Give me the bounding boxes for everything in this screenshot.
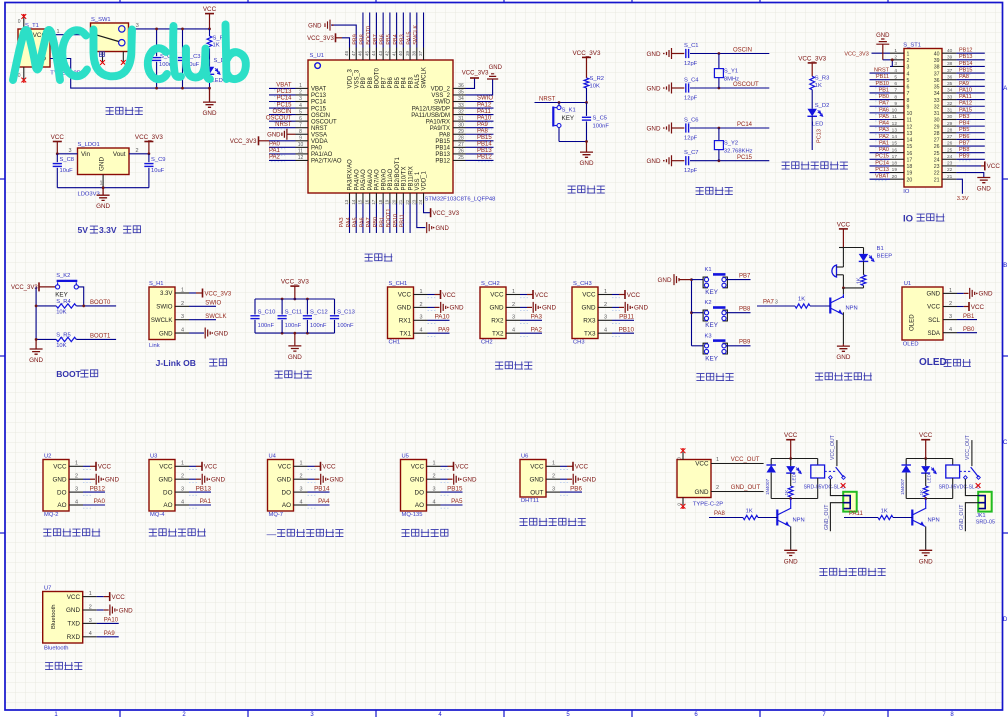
svg-text:3: 3 — [69, 148, 72, 154]
wire net BOOT1 from U1 bottom — [386, 204, 396, 234]
svg-text:NRST: NRST — [874, 67, 890, 73]
wire net PA9 from ST1 pin 35 — [956, 81, 984, 88]
wire NRST node — [535, 97, 588, 104]
wire GND_OUT to JK pin2 — [824, 503, 844, 532]
ground GND (S_C7) — [647, 155, 685, 166]
svg-text:VCC: VCC — [398, 292, 412, 299]
svg-text:31: 31 — [947, 108, 953, 114]
svg-text:BOOT0: BOOT0 — [366, 26, 372, 45]
svg-text:GND: GND — [159, 330, 173, 337]
zone letters right margin — [1003, 86, 1008, 623]
svg-text:PB5: PB5 — [386, 34, 392, 45]
title 5V转3.3V电路 — [78, 225, 141, 235]
svg-text:SRD-05VDC-SL-C: SRD-05VDC-SL-C — [804, 484, 846, 490]
svg-text:PB14: PB14 — [477, 142, 492, 148]
svg-text:10: 10 — [892, 108, 898, 114]
svg-text:100nF: 100nF — [337, 323, 354, 329]
svg-text:DO: DO — [282, 489, 292, 496]
power port VCC_3V3 (LDO out) — [135, 134, 163, 154]
svg-text:BOOT1: BOOT1 — [90, 333, 111, 339]
svg-text:32.768KHz: 32.768KHz — [724, 149, 753, 155]
wire net PA15 to U1 top — [406, 13, 416, 48]
svg-text:PA12: PA12 — [477, 102, 492, 108]
svg-text:NRST: NRST — [275, 122, 292, 128]
svg-text:PB0: PB0 — [879, 94, 889, 100]
svg-text:PA15: PA15 — [959, 107, 972, 113]
svg-text:PB0: PB0 — [373, 217, 379, 228]
svg-text:35: 35 — [458, 90, 464, 96]
svg-text:PA9: PA9 — [959, 81, 969, 87]
zone numbers bottom margin — [54, 712, 954, 717]
svg-text:PC13: PC13 — [276, 89, 292, 95]
svg-text:GND: GND — [29, 357, 43, 364]
wire net PA4 to ST1 pin 12 — [870, 121, 891, 128]
svg-text:10uF: 10uF — [60, 168, 74, 174]
S_CH2 — [480, 281, 506, 346]
svg-text:2: 2 — [552, 474, 555, 480]
MCU S_U1 STM32F103C8T6 — [308, 53, 495, 203]
capacitor S_C4 12pF — [684, 78, 699, 102]
svg-text:5: 5 — [299, 109, 302, 115]
wire PC15 (crystal) — [690, 155, 769, 162]
svg-text:GND: GND — [634, 305, 648, 312]
svg-text:SWCLK: SWCLK — [151, 317, 173, 324]
title BOOT电路 — [56, 369, 98, 379]
svg-text:GND_OUT: GND_OUT — [731, 485, 761, 491]
svg-text:7: 7 — [894, 88, 897, 94]
title IO拓展口 — [903, 214, 944, 225]
wire T1 pin2 to ground rail — [50, 53, 210, 88]
LED S_D2 — [807, 90, 829, 150]
svg-text:2: 2 — [433, 474, 436, 480]
svg-text:VCC: VCC — [490, 292, 504, 299]
svg-text:SRD-05: SRD-05 — [976, 520, 995, 526]
svg-text:PB6: PB6 — [379, 34, 385, 45]
svg-text:PB3: PB3 — [959, 114, 969, 120]
svg-text:PC15: PC15 — [875, 154, 889, 160]
resistor S_R3 1K — [810, 76, 830, 90]
svg-text:PB8: PB8 — [959, 147, 969, 153]
svg-text:13: 13 — [907, 131, 913, 137]
wire OSCOUT — [690, 82, 769, 89]
svg-text:VSS_1: VSS_1 — [415, 171, 421, 190]
svg-text:VCC: VCC — [535, 292, 549, 299]
svg-text:PB4: PB4 — [959, 121, 969, 127]
svg-text:PA1: PA1 — [200, 498, 212, 505]
svg-text:VCC: VCC — [784, 432, 798, 439]
svg-text:VCC: VCC — [98, 464, 112, 471]
svg-text:19: 19 — [907, 171, 913, 177]
wire relay top rail — [906, 457, 953, 460]
svg-text:PA3: PA3 — [339, 217, 345, 227]
svg-text:PA10: PA10 — [477, 115, 492, 121]
svg-text:PA9: PA9 — [438, 326, 450, 333]
svg-text:37: 37 — [418, 50, 423, 56]
svg-text:10: 10 — [298, 142, 304, 148]
svg-text:3: 3 — [181, 487, 184, 493]
svg-text:PA10: PA10 — [435, 314, 450, 321]
title 蓝牙模块 — [45, 662, 82, 670]
svg-text:PC13: PC13 — [875, 167, 889, 173]
svg-text:39: 39 — [947, 55, 953, 61]
svg-text:3: 3 — [420, 315, 423, 321]
svg-text:VCC_OUT: VCC_OUT — [830, 434, 836, 460]
svg-text:GND: GND — [211, 477, 225, 484]
svg-text:CH3: CH3 — [573, 340, 585, 346]
LED (relay) — [921, 459, 936, 484]
svg-text:GND: GND — [542, 305, 556, 312]
wire pin 1 of S_CH1 — [414, 289, 441, 298]
wire net PC14 to ST1 pin 18 — [870, 160, 891, 167]
svg-text:VCC_3V3: VCC_3V3 — [307, 36, 334, 42]
svg-text:U6: U6 — [521, 453, 528, 459]
svg-text:VCC: VCC — [837, 221, 851, 228]
svg-text:40: 40 — [398, 50, 403, 56]
svg-text:24: 24 — [934, 157, 940, 163]
svg-text:AO: AO — [282, 502, 291, 509]
svg-text:VCC: VCC — [575, 464, 589, 471]
svg-text:28: 28 — [458, 136, 464, 142]
wire net PA5 to ST1 pin 11 — [870, 114, 891, 121]
svg-text:TX3: TX3 — [584, 330, 596, 337]
svg-text:PB9: PB9 — [361, 76, 367, 88]
svg-text:PB7: PB7 — [739, 273, 751, 279]
svg-text:23: 23 — [412, 199, 417, 205]
switch S_SW1 — [91, 17, 129, 65]
svg-text:1: 1 — [552, 461, 555, 467]
svg-text:VCC_3V3: VCC_3V3 — [798, 55, 826, 62]
svg-text:2: 2 — [420, 302, 423, 308]
power port VCC (alarm) — [837, 221, 851, 247]
wire T1 pin1 to SW1 — [50, 29, 91, 35]
title 甲烷检测模块 — [149, 529, 206, 537]
power port GND at S_CH2 pin 2 — [533, 302, 556, 313]
title 串口电路 — [495, 362, 532, 370]
power port GND at U4 pin 2 — [321, 474, 344, 485]
wire switch to JK pin1 — [965, 479, 978, 496]
resistor 1K (relay) — [784, 473, 793, 498]
svg-text:VCC: VCC — [112, 594, 126, 601]
svg-text:36: 36 — [458, 83, 464, 89]
svg-text:STM32F103C8T6_LQFP48: STM32F103C8T6_LQFP48 — [425, 197, 496, 203]
capacitor S_C3 10uF — [178, 28, 201, 90]
capacitor S_C6 12pF — [684, 118, 699, 142]
connector TYPE-C-2P (relay power) — [677, 448, 724, 509]
svg-text:S_R4: S_R4 — [56, 299, 71, 305]
capacitor S_C10 100nF — [250, 299, 275, 333]
svg-text:VBAT: VBAT — [311, 87, 327, 93]
wire net PA4 from U1 bottom — [346, 204, 356, 234]
wire net PA8 from U1 — [466, 128, 494, 135]
ground GND (relay PA11) — [919, 549, 933, 565]
svg-text:VBAT: VBAT — [276, 83, 292, 89]
wire net PA2 to ST1 pin 14 — [870, 134, 891, 141]
svg-text:15: 15 — [892, 141, 898, 147]
svg-text:2: 2 — [75, 474, 78, 480]
wire pin 4 of S_CH1 — [414, 326, 450, 336]
svg-text:VSSA: VSSA — [311, 132, 327, 138]
svg-text:—: — — [267, 529, 277, 540]
svg-text:PB7: PB7 — [373, 34, 379, 45]
svg-text:2: 2 — [89, 604, 92, 610]
svg-text:10K: 10K — [590, 84, 600, 90]
power port VCC (LDO input) — [51, 134, 65, 154]
svg-text:NPN: NPN — [793, 518, 805, 524]
svg-text:PB1: PB1 — [879, 87, 889, 93]
crystal S_Y1 8MHz — [714, 54, 739, 89]
svg-text:VCC: VCC — [530, 464, 544, 471]
wire net PB10 to ST1 pin 6 — [870, 81, 891, 88]
svg-text:PB1/AO: PB1/AO — [388, 168, 394, 190]
svg-text:25: 25 — [934, 151, 940, 157]
svg-text:S_C11: S_C11 — [285, 310, 302, 316]
svg-text:3.3V: 3.3V — [99, 225, 117, 235]
svg-text:GND: GND — [658, 277, 672, 284]
svg-text:GND: GND — [647, 85, 661, 92]
wire net BOOT0 to U1 top — [366, 13, 376, 48]
svg-text:SCL: SCL — [928, 317, 940, 324]
ground GND at ST1 pin22 — [956, 173, 991, 193]
svg-text:21: 21 — [934, 177, 940, 183]
capacitor S_C9 10uF — [144, 154, 165, 188]
svg-text:11: 11 — [892, 114, 897, 120]
svg-text:37: 37 — [934, 71, 940, 77]
net label PC13 (indicator wire) — [817, 129, 823, 143]
ground GND (keys) — [658, 274, 692, 285]
svg-text:TX2: TX2 — [492, 330, 504, 337]
svg-text:VCC: VCC — [67, 594, 81, 601]
svg-text:4: 4 — [89, 631, 92, 637]
ground GND (relay PA8) — [784, 549, 798, 565]
svg-text:4: 4 — [75, 499, 78, 505]
wire net VBAT to ST1 pin 20 — [870, 174, 891, 181]
svg-text:PC14: PC14 — [875, 160, 889, 166]
wire net PA10 at U7 pin3 — [83, 618, 119, 624]
svg-text:13: 13 — [344, 199, 349, 205]
power port GND at U2 pin 2 — [96, 474, 119, 485]
svg-text:PB9: PB9 — [959, 154, 969, 160]
svg-text:SWIO: SWIO — [477, 96, 493, 102]
svg-text:4: 4 — [512, 328, 515, 334]
svg-text:30: 30 — [458, 122, 464, 128]
wire GND_OUT — [711, 485, 764, 491]
capacitor S_C7 12pF — [684, 150, 699, 174]
svg-text:3: 3 — [136, 23, 139, 29]
power port VCC_3V3 at U1 VDD_2 — [462, 71, 489, 89]
svg-text:PA3/RX/AO: PA3/RX/AO — [348, 159, 354, 191]
svg-text:26: 26 — [458, 149, 464, 155]
svg-text:31: 31 — [458, 116, 464, 122]
wire alarm bottom node — [842, 287, 864, 290]
svg-text:24: 24 — [947, 154, 953, 160]
wire pin 3 of U6 — [546, 485, 582, 495]
svg-text:GND: GND — [66, 607, 80, 614]
svg-text:PA8: PA8 — [439, 132, 451, 138]
svg-text:12pF: 12pF — [684, 96, 698, 102]
svg-text:VCC: VCC — [919, 432, 933, 439]
wire H1 pin3 SWCLK — [175, 314, 227, 320]
connector JK1 SRD-05 — [843, 492, 857, 512]
svg-text:17: 17 — [892, 154, 898, 160]
wire net PA3 to ST1 pin 13 — [870, 127, 891, 134]
svg-text:1: 1 — [299, 83, 302, 89]
svg-text:PB13: PB13 — [477, 148, 492, 154]
svg-text:4: 4 — [907, 71, 910, 77]
wire VCC_OUT — [711, 457, 764, 463]
wire net PA6 from U1 bottom — [359, 204, 369, 234]
svg-text:GND: GND — [436, 226, 450, 232]
connector S_T1 TYPE-C-2P — [18, 14, 81, 83]
wire pin 1 of U2 — [69, 461, 96, 470]
svg-text:VCC_3V3: VCC_3V3 — [230, 139, 257, 145]
svg-text:JK1: JK1 — [976, 513, 985, 519]
wire net PB0 from U1 bottom — [373, 204, 383, 234]
wire net PB5 to U1 top — [386, 13, 396, 48]
svg-text:GND: GND — [530, 476, 544, 483]
svg-text:S_K1: S_K1 — [562, 108, 576, 114]
svg-text:PA2: PA2 — [879, 134, 889, 140]
svg-text:VBAT: VBAT — [875, 174, 890, 180]
svg-text:VCC_3V3: VCC_3V3 — [281, 279, 309, 286]
svg-text:48: 48 — [344, 50, 349, 56]
svg-text:31: 31 — [934, 111, 940, 117]
title 按键电路 — [696, 373, 733, 381]
svg-text:GND: GND — [99, 157, 106, 171]
resistor 1K (relay) — [919, 473, 928, 498]
svg-text:PA0: PA0 — [94, 498, 106, 505]
svg-text:PB15: PB15 — [959, 67, 972, 73]
svg-text:VCC: VCC — [442, 292, 456, 299]
svg-text:VCC_3V3: VCC_3V3 — [11, 285, 38, 291]
wire net PA11 from ST1 pin 33 — [956, 94, 984, 101]
wire net PB14 from ST1 pin 38 — [956, 61, 984, 68]
svg-text:PA7: PA7 — [763, 300, 775, 306]
svg-text:PB4: PB4 — [393, 34, 399, 45]
capacitor S_C1 12pF — [684, 43, 699, 67]
svg-text:VCC_OUT: VCC_OUT — [731, 457, 760, 463]
svg-text:22: 22 — [405, 199, 410, 205]
svg-text:BOOT0: BOOT0 — [90, 300, 111, 306]
wire net PB7 to U1 top — [373, 13, 383, 48]
svg-text:8MHz: 8MHz — [724, 77, 739, 83]
svg-text:BOOT1: BOOT1 — [386, 209, 392, 228]
svg-text:VCC_3V3: VCC_3V3 — [844, 51, 868, 57]
svg-text:PA0: PA0 — [311, 146, 323, 152]
svg-text:PC14: PC14 — [311, 100, 327, 106]
svg-text:PA2: PA2 — [531, 326, 543, 333]
svg-text:PB13: PB13 — [959, 54, 972, 60]
power port VCC (relay PA11) — [919, 432, 933, 458]
wire net PB13 from U1 — [466, 148, 494, 155]
svg-text:2: 2 — [299, 90, 302, 96]
svg-text:4: 4 — [604, 328, 607, 334]
wire switch to JK pin1 — [830, 479, 843, 496]
wire net PA11 from U1 — [466, 109, 494, 116]
wire OSCIN — [690, 48, 769, 55]
svg-text:OSCIN: OSCIN — [272, 109, 291, 115]
svg-text:SWIO: SWIO — [434, 100, 450, 106]
wire net PB1 at OLED pin3 — [943, 314, 977, 320]
wire pin 3 of U3 — [175, 485, 211, 495]
svg-text:DHT11: DHT11 — [521, 498, 539, 504]
power port VCC at U4 pin 1 — [321, 462, 337, 471]
wire H1 pin2 SWIO — [175, 301, 222, 307]
svg-text:5V: 5V — [78, 225, 89, 235]
svg-text:VSS_3: VSS_3 — [354, 69, 360, 88]
svg-text:36: 36 — [934, 78, 940, 84]
key S_K1 — [553, 103, 586, 142]
capacitor S_C11 100nF — [278, 299, 302, 333]
svg-text:30: 30 — [934, 118, 940, 124]
svg-text:MQ-2: MQ-2 — [44, 512, 59, 518]
svg-text:26: 26 — [934, 144, 940, 150]
svg-text:9: 9 — [299, 136, 302, 142]
svg-text:PA0: PA0 — [269, 142, 281, 148]
svg-text:1K: 1K — [746, 509, 753, 515]
svg-text:32: 32 — [458, 109, 464, 115]
wire net PB8 to U1 top — [359, 13, 369, 48]
svg-text:16: 16 — [364, 199, 369, 205]
svg-text:PA7/AO: PA7/AO — [375, 169, 381, 191]
svg-text:IO: IO — [903, 214, 913, 225]
svg-text:VCC: VCC — [627, 292, 641, 299]
svg-text:S_U1: S_U1 — [310, 53, 325, 59]
power port GND at U6 pin 2 — [573, 474, 596, 485]
svg-text:1K: 1K — [919, 489, 925, 496]
svg-text:20: 20 — [391, 199, 396, 205]
net label VCC_OUT (relay switch) — [965, 434, 971, 460]
svg-text:GND: GND — [53, 476, 67, 483]
svg-text:1K: 1K — [881, 509, 888, 515]
svg-text:SWCLK: SWCLK — [413, 25, 419, 45]
svg-text:3.3V: 3.3V — [957, 196, 969, 202]
svg-text:S_R5: S_R5 — [56, 333, 71, 339]
svg-text:PB11: PB11 — [876, 74, 889, 80]
svg-text:12pF: 12pF — [684, 168, 698, 174]
svg-text:2: 2 — [300, 474, 303, 480]
svg-text:VDD_1: VDD_1 — [422, 170, 428, 190]
svg-text:KEY: KEY — [705, 322, 718, 329]
svg-text:LED: LED — [791, 473, 796, 483]
svg-text:AO: AO — [57, 502, 66, 509]
svg-text:4: 4 — [894, 68, 897, 74]
svg-text:4: 4 — [299, 103, 302, 109]
svg-text:TX1: TX1 — [399, 330, 411, 337]
svg-text:PB12: PB12 — [477, 155, 492, 161]
title 苯检测模块 — [402, 529, 449, 537]
svg-text:19: 19 — [385, 199, 390, 205]
svg-text:40: 40 — [947, 48, 953, 54]
svg-text:SWCLK: SWCLK — [205, 314, 226, 320]
svg-text:GND: GND — [397, 305, 411, 312]
svg-text:PB10: PB10 — [619, 326, 635, 333]
svg-text:VCC_3V3: VCC_3V3 — [135, 134, 163, 141]
svg-text:10uF: 10uF — [151, 168, 165, 174]
ground GND at OLED pin1 — [943, 288, 993, 299]
svg-text:PB1: PB1 — [963, 314, 975, 320]
svg-text:LED: LED — [812, 122, 823, 128]
svg-text:27: 27 — [947, 134, 953, 140]
svg-text:3: 3 — [775, 300, 778, 306]
svg-text:15: 15 — [358, 199, 363, 205]
wire net PC15 to ST1 pin 17 — [870, 154, 891, 161]
svg-text:32: 32 — [947, 101, 953, 107]
S_CH1 — [388, 281, 414, 346]
svg-text:4: 4 — [181, 327, 184, 333]
svg-text:1: 1 — [300, 461, 303, 467]
svg-text:D: D — [1003, 617, 1008, 623]
svg-text:GND: GND — [647, 158, 661, 165]
